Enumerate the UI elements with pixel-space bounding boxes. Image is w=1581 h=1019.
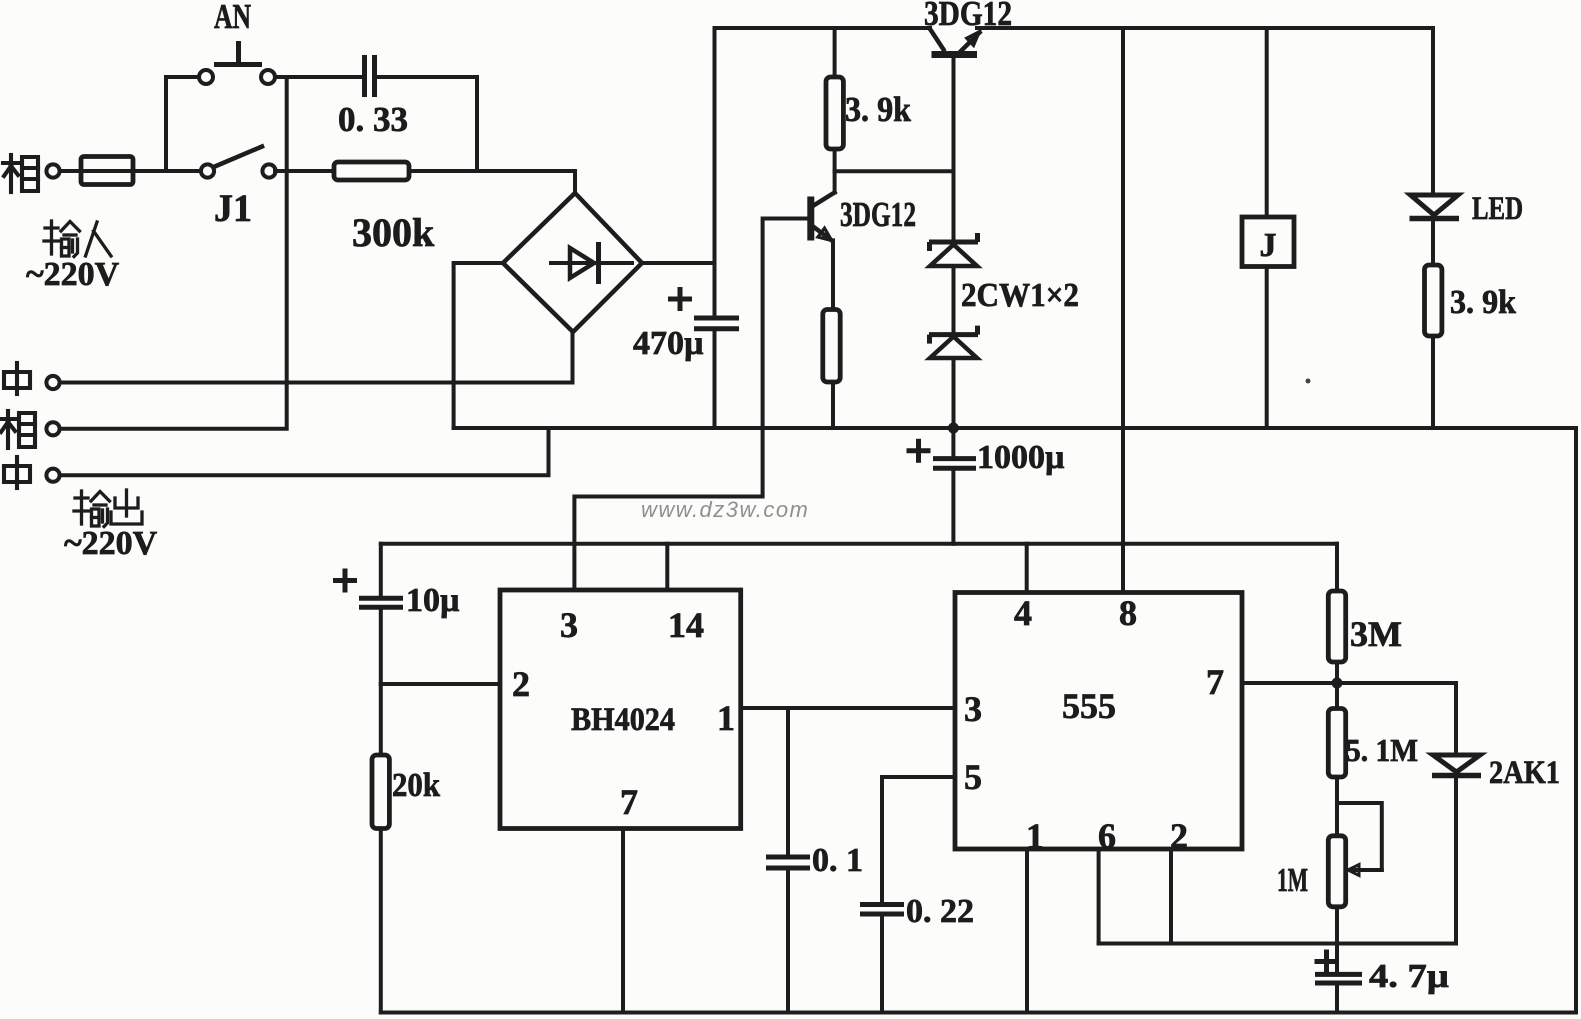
label 中 (input neutral) [4,363,30,394]
resistor 3.9k (LED) [1425,265,1517,428]
wire right border [1574,428,1578,1013]
capacitor 0.22 [860,893,974,1013]
resistor 5.1M [1328,683,1418,836]
svg-text:2CW1×2: 2CW1×2 [961,277,1079,314]
junction node dot [1332,678,1343,689]
wire negative supply rail [454,426,1576,430]
svg-text:20k: 20k [392,767,440,804]
svg-text:www.dz3w.com: www.dz3w.com [641,497,809,522]
svg-text:BH4024: BH4024 [571,702,675,738]
label 输入 [44,221,111,257]
pushbutton AN [199,0,275,84]
wire fuse to J1 [133,169,201,173]
svg-text:J: J [1260,227,1277,264]
wire BH4024 pin 14 to rail [665,544,669,590]
label ~220V (output) [64,525,158,562]
wire 3.9k bottom to Q1 base [835,169,954,173]
LED [1410,28,1524,265]
svg-text:14: 14 [668,605,704,645]
wire capacitor right branch [377,77,477,171]
svg-text:3: 3 [964,689,982,729]
svg-text:555: 555 [1062,686,1116,726]
junction node dot [948,423,959,434]
wire BH4024 pin 2 row [381,682,500,686]
wire 555 pin 8 to top rail [1121,28,1125,593]
wire 中 output row to negative rail [60,428,549,475]
wire BH4024 pin 1 to 555 pin 3 [741,706,955,710]
potentiometer 1M [1277,803,1382,974]
stray mark [1306,379,1311,384]
wire 555 pin 7 row [1242,681,1456,685]
svg-text:7: 7 [620,782,638,822]
wire 中 input row to bridge bottom [60,332,573,383]
wire top rail right [977,26,1433,30]
resistor 300k [334,162,435,255]
switch J1 [201,147,276,231]
wire logic supply rail [381,542,1337,546]
diode 2AK1 [1432,683,1560,944]
svg-text:3DG12: 3DG12 [840,195,916,234]
terminal 相 output [46,422,59,435]
wire zener bottom to rail [952,358,956,428]
wire 555 pin 1 to bottom border [1025,849,1029,1013]
wire AN row to capacitor [275,75,362,79]
svg-text:2AK1: 2AK1 [1489,755,1560,791]
transistor Q2 3DG12 (driver) [811,193,916,241]
label 相 (output phase) [0,411,35,448]
svg-text:10µ: 10µ [406,582,460,619]
svg-text:AN: AN [214,0,251,36]
capacitor 10u (reset) [333,544,460,684]
svg-text:1M: 1M [1277,862,1308,899]
svg-text:6: 6 [1098,816,1116,856]
wire fuse left [60,169,81,173]
svg-text:0. 22: 0. 22 [906,893,974,930]
svg-text:4: 4 [1014,593,1032,633]
node J1 output vertical to output row [60,77,287,429]
label ~220V (input) [26,256,120,293]
watermark [641,497,809,522]
fuse F1 [81,157,133,185]
svg-text:470µ: 470µ [633,325,704,362]
wire 555 pin 5 branch [882,777,955,905]
resistor Q2 emitter [823,240,840,428]
transistor Q1 3DG12 (series regulator) [924,0,1012,55]
svg-text:~220V: ~220V [26,256,120,293]
wire AN branch vertical [166,77,199,171]
svg-text:3M: 3M [1350,614,1402,654]
IC U1 BH4024 [500,590,741,829]
wire Q1 base down to zeners [952,56,956,242]
label 输出 [74,490,142,527]
capacitor 1000u [907,428,1065,544]
svg-text:3. 9k: 3. 9k [845,90,911,129]
relay coil J [1242,28,1294,428]
resistor 20k [372,684,440,1013]
svg-text:2: 2 [512,664,530,704]
wire J1 to 300k [275,169,334,173]
svg-text:7: 7 [1206,662,1224,702]
zener D1 2CW1 [929,233,978,266]
wire between zeners [952,266,956,335]
svg-text:3. 9k: 3. 9k [1450,284,1516,321]
terminal 中 output [46,469,59,482]
wire Q2 base to BH4024 pin 3 [574,219,809,591]
capacitor 0.33 [338,55,408,139]
svg-text:300k: 300k [352,210,435,255]
resistor 3M [1328,544,1402,683]
capacitor 0.1 [766,708,863,1013]
bridge rectifier [503,193,642,332]
wire 555 pin 4 to rail [1025,544,1029,593]
svg-text:~220V: ~220V [64,525,158,562]
svg-text:LED: LED [1472,191,1523,227]
wire BH4024 pin 7 to bottom border [621,829,625,1013]
svg-text:1000µ: 1000µ [977,439,1065,476]
capacitor 470u [633,28,739,428]
terminal 相 input [46,164,59,177]
svg-text:5. 1M: 5. 1M [1346,732,1418,768]
svg-text:J1: J1 [214,187,252,230]
svg-text:8: 8 [1119,593,1137,633]
wire bridge plus corner to 470u branch [642,261,715,265]
wire top rail left [715,26,931,30]
label 中 (output neutral) [4,457,30,488]
svg-text:3: 3 [560,605,578,645]
wire bridge minus corner to negative rail [454,263,503,428]
IC U2 555 [955,593,1242,857]
svg-text:1: 1 [717,698,735,738]
wire bottom border [381,1011,1576,1015]
svg-text:5: 5 [964,757,982,797]
label 相 (input phase) [3,155,38,192]
capacitor 4.7u [1315,950,1450,1013]
wire 555 pins 6 and 2 tie row [1099,849,1456,944]
svg-text:0. 33: 0. 33 [338,100,408,139]
wire 300k to bridge top [409,171,575,193]
zener D2 2CW1 [929,277,1079,358]
svg-text:0. 1: 0. 1 [812,842,863,879]
terminal 中 input [46,376,59,389]
svg-text:4. 7µ: 4. 7µ [1369,958,1449,995]
resistor 3.9k (Q2 collector load) [826,28,911,193]
